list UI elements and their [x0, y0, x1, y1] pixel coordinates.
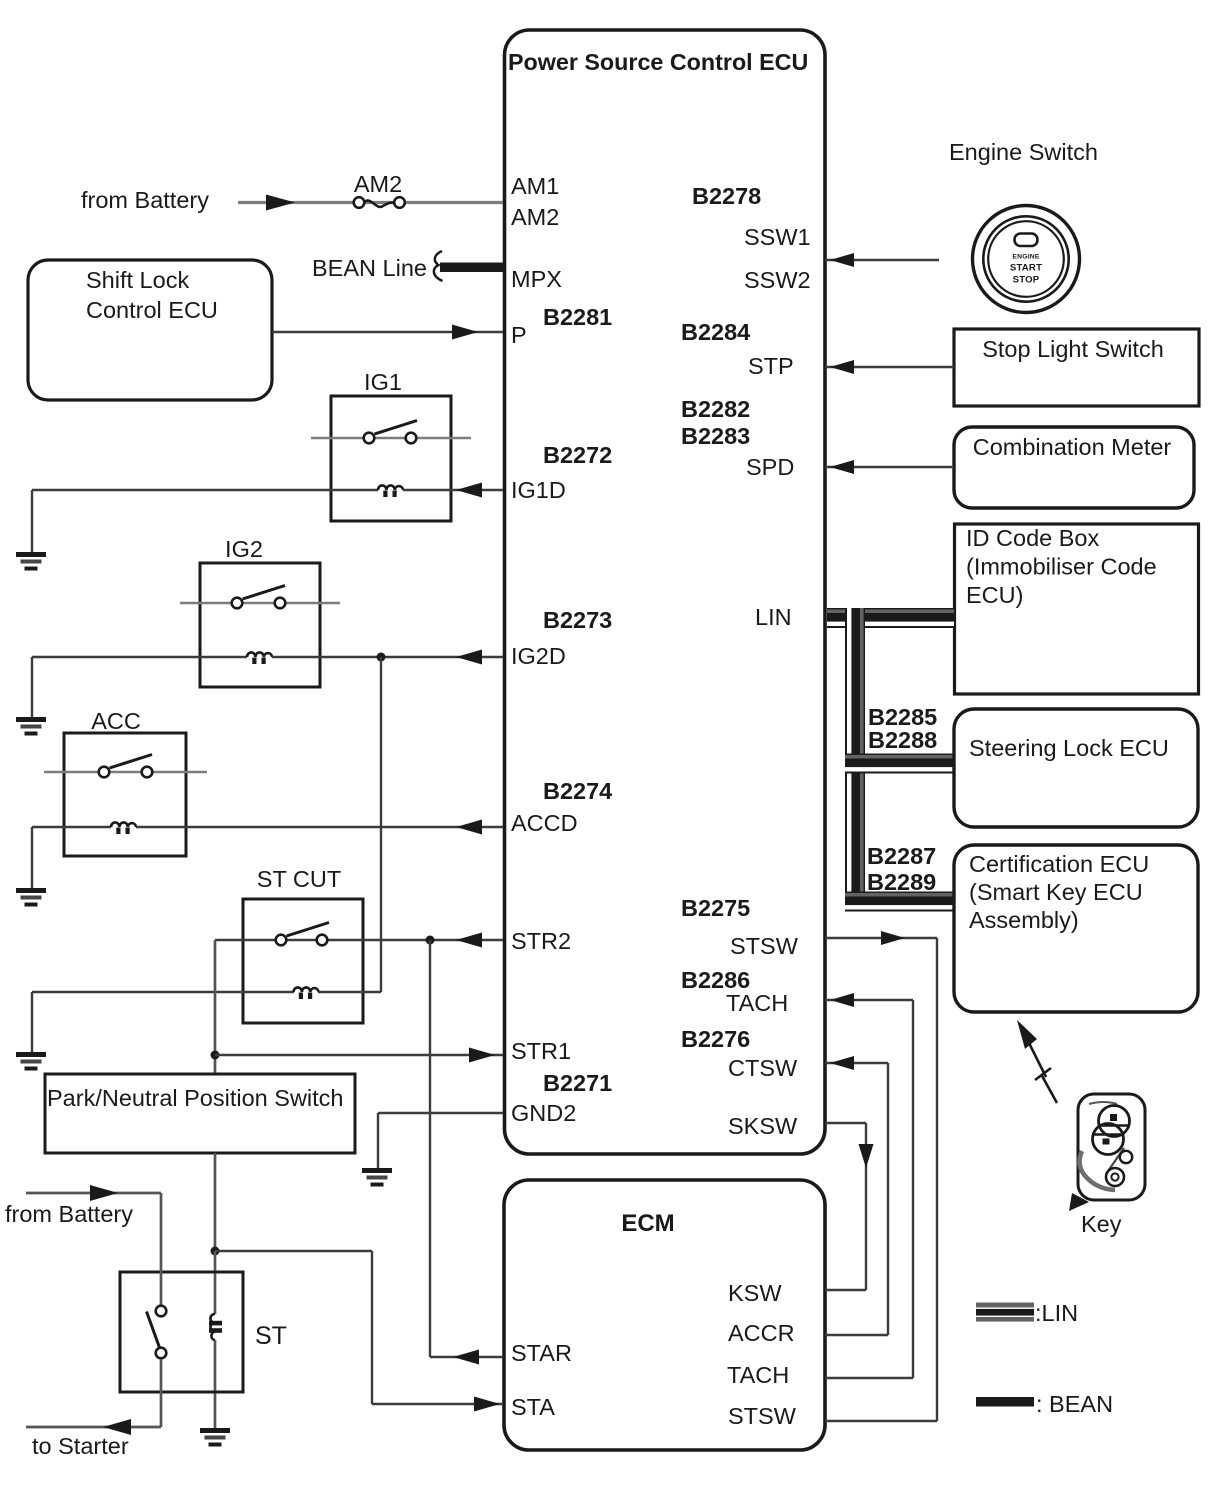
arrow into TACH: [830, 993, 854, 1007]
ST CUT relay coil: [294, 987, 319, 992]
IG2 switch contacts: [232, 598, 243, 609]
svg-text:IG2: IG2: [225, 536, 263, 562]
wire IG1D from ECU to coil: [403, 489, 503, 491]
wire STR2 junction down to STAR: [429, 940, 431, 1357]
svg-text:ECM: ECM: [621, 1210, 674, 1237]
wire TACH (ECM) to TACH (ECU): [825, 999, 913, 1001]
IG2 relay box: [200, 563, 320, 687]
ECM box: [504, 1180, 825, 1450]
LIN bus branch to Steering Lock ECU: [845, 754, 954, 774]
ground for IG1 coil: [16, 552, 46, 571]
ground below ST relay: [200, 1428, 230, 1447]
svg-text:: BEAN: : BEAN: [1036, 1391, 1113, 1417]
wire junction to ECM STAR: [430, 1356, 503, 1358]
wire GND2 to ground: [378, 1112, 503, 1114]
key fob lower button circle: [1093, 1124, 1124, 1155]
wire ST CUT coil to ground: [32, 991, 294, 993]
wire node down to ST coil: [214, 1251, 217, 1314]
svg-text:STR1: STR1: [511, 1038, 571, 1064]
wire corner down: [371, 1251, 373, 1404]
svg-text:Key: Key: [1081, 1211, 1122, 1237]
arrow SKSW down: [859, 1144, 874, 1168]
svg-text:B2278: B2278: [692, 183, 761, 209]
svg-text:TACH: TACH: [727, 1362, 789, 1388]
svg-text:(Immobiliser Code: (Immobiliser Code: [966, 554, 1157, 580]
Park/Neutral Position Switch box: [45, 1074, 355, 1153]
svg-text:B2275: B2275: [681, 895, 750, 921]
junction dot ST relay feed: [211, 1247, 220, 1256]
ST relay box: [120, 1272, 243, 1392]
svg-text::LIN: :LIN: [1035, 1300, 1078, 1326]
svg-text:B2282: B2282: [681, 396, 750, 422]
key ring arrow: [1069, 1193, 1089, 1211]
wire node to STA corner: [215, 1250, 372, 1252]
svg-text:Park/Neutral Position Switch: Park/Neutral Position Switch: [47, 1085, 343, 1111]
wire IG2D from ECU to coil: [272, 656, 503, 658]
svg-text:IG1D: IG1D: [511, 477, 566, 503]
svg-text:CTSW: CTSW: [728, 1055, 798, 1081]
BEAN thick wire into MPX: [440, 263, 504, 273]
svg-text:IG1: IG1: [364, 369, 402, 395]
svg-text:B2274: B2274: [543, 778, 612, 804]
svg-text:B2271: B2271: [543, 1070, 612, 1096]
svg-text:STAR: STAR: [511, 1340, 572, 1366]
engine start/stop button outer ring: [973, 206, 1080, 313]
svg-text:AM1: AM1: [511, 173, 559, 199]
arrow IG1D: [456, 483, 482, 498]
engine button middle ring: [983, 216, 1068, 301]
Stop Light Switch box: [954, 329, 1199, 406]
svg-text:Combination Meter: Combination Meter: [973, 434, 1172, 460]
key fob double circle: [1106, 1168, 1124, 1186]
svg-text:STSW: STSW: [728, 1403, 797, 1429]
key fob body: [1078, 1094, 1145, 1200]
svg-text:Shift Lock: Shift Lock: [86, 267, 189, 293]
ACC switch wire: [44, 771, 207, 774]
ID Code Box (Immobiliser Code ECU) box: [955, 524, 1199, 694]
wire to ECM STA: [372, 1403, 503, 1405]
IG2 switch blade: [243, 586, 286, 600]
wire SKSW (ECU) to KSW (ECM): [825, 1122, 866, 1124]
ground for IG2 coil: [16, 717, 46, 736]
LIN bus wire ECU to ID Code Box: [827, 608, 954, 628]
engine button inner ring: [988, 221, 1064, 297]
svg-text:B2283: B2283: [681, 423, 750, 449]
svg-text:SSW1: SSW1: [744, 224, 811, 250]
ground for ST CUT coil: [16, 1052, 46, 1071]
svg-text:to Starter: to Starter: [32, 1433, 129, 1459]
wire from battery (bottom): [26, 1192, 161, 1195]
svg-text:STOP: STOP: [1013, 275, 1040, 286]
ACC switch blade: [110, 755, 153, 769]
svg-text:SKSW: SKSW: [728, 1113, 798, 1139]
svg-text:B2276: B2276: [681, 1026, 750, 1052]
wire ACCR (ECM) to CTSW (ECU): [825, 1062, 888, 1064]
arrow on battery wire: [266, 195, 295, 211]
wire junction down to ST CUT coil: [380, 657, 382, 992]
ACC relay coil: [111, 822, 136, 827]
arrow STR2: [456, 933, 482, 948]
svg-text:IG2D: IG2D: [511, 643, 566, 669]
svg-text:ACCD: ACCD: [511, 810, 578, 836]
arrow into P: [452, 325, 478, 340]
Steering Lock ECU box: [954, 709, 1198, 827]
svg-text:B2287: B2287: [867, 843, 936, 869]
key ring strap: [1080, 1151, 1115, 1190]
arrow on bottom battery wire: [90, 1185, 118, 1201]
wire ACCD from ECU to coil: [136, 826, 503, 828]
wire from battery to AM1/AM2: [238, 201, 503, 204]
arrow STAR: [453, 1350, 479, 1365]
ST switch blade: [147, 1312, 161, 1350]
wire engine switch to SSW2: [825, 259, 939, 261]
IG1 relay coil: [378, 485, 403, 490]
wire ST switch to starter: [160, 1359, 163, 1427]
arrow into STA: [474, 1397, 500, 1412]
svg-text:P: P: [511, 322, 527, 348]
ST CUT switch wire: [215, 939, 503, 941]
svg-text:B2273: B2273: [543, 607, 612, 633]
svg-text:START: START: [1010, 263, 1042, 274]
svg-text:Control ECU: Control ECU: [86, 297, 218, 323]
ground GND2: [362, 1168, 392, 1187]
arrow into STP: [830, 360, 854, 374]
svg-text:AM2: AM2: [354, 171, 402, 197]
svg-text:KSW: KSW: [728, 1280, 782, 1306]
arrow into CTSW: [830, 1056, 854, 1070]
wireless signal arrow (key to certification ECU): [1017, 1020, 1037, 1049]
arrow into SPD: [830, 460, 854, 474]
ST CUT switch blade: [287, 923, 330, 937]
Certification ECU box: [954, 845, 1198, 1012]
svg-text:STA: STA: [511, 1394, 555, 1420]
svg-text:ST CUT: ST CUT: [257, 866, 341, 892]
wire ST CUT switch down to STR1 node: [214, 940, 217, 1074]
wire IG2 coil to ground: [32, 656, 247, 658]
ST CUT relay box: [243, 899, 363, 1023]
arrow into STR1: [469, 1048, 495, 1063]
LIN bus vertical drop: [845, 608, 865, 911]
arrow ACCD: [456, 820, 482, 835]
svg-text:Steering Lock ECU: Steering Lock ECU: [969, 735, 1169, 761]
wire ST coil to ground: [214, 1340, 217, 1429]
svg-text:ACC: ACC: [91, 708, 141, 734]
IG1 switch blade: [375, 421, 418, 435]
arrow STSW out: [881, 931, 905, 945]
svg-text:ST: ST: [255, 1322, 287, 1350]
ST switch contacts: [156, 1306, 167, 1317]
svg-text:SSW2: SSW2: [744, 267, 811, 293]
svg-text:ACCR: ACCR: [728, 1320, 795, 1346]
ECU box: Power Source Control ECU: [505, 30, 826, 1154]
wire Shift Lock ECU to P pin: [272, 331, 503, 333]
svg-text:ID Code Box: ID Code Box: [966, 525, 1099, 551]
svg-text:SPD: SPD: [746, 454, 794, 480]
legend BEAN bar: [976, 1397, 1034, 1407]
Shift Lock Control ECU box: [28, 260, 272, 400]
key fob small circle: [1120, 1151, 1132, 1163]
IG1 relay box: [331, 396, 451, 521]
key fob upper button circle: [1099, 1106, 1130, 1137]
ground for ACC coil: [16, 888, 46, 907]
svg-text:Power Source Control ECU: Power Source Control ECU: [508, 49, 808, 75]
Combination Meter box: [954, 427, 1194, 508]
ST CUT switch contacts: [276, 935, 287, 946]
svg-text:Engine Switch: Engine Switch: [949, 139, 1098, 165]
wire node to ECU STR1: [215, 1054, 503, 1056]
key fob button slots: [1094, 1126, 1129, 1135]
BEAN squiggle bracket: [434, 251, 443, 281]
svg-text:MPX: MPX: [511, 266, 562, 292]
wire combination meter to SPD: [825, 466, 954, 468]
ACC switch contacts: [99, 767, 110, 778]
svg-text:ECU): ECU): [966, 582, 1023, 608]
wire stop light switch to STP: [825, 366, 954, 368]
svg-text:AM2: AM2: [511, 204, 559, 230]
svg-text:from Battery: from Battery: [81, 187, 209, 213]
wire IG1 coil to ground: [32, 489, 378, 491]
svg-text:B2284: B2284: [681, 319, 750, 345]
svg-text:(Smart Key ECU: (Smart Key ECU: [969, 879, 1143, 905]
key fob diagonal stroke: [1106, 1148, 1124, 1174]
IG1 switch contacts: [364, 433, 375, 444]
svg-text:STSW: STSW: [730, 933, 799, 959]
svg-text:Stop Light Switch: Stop Light Switch: [982, 336, 1164, 362]
svg-text:from Battery: from Battery: [5, 1201, 133, 1227]
svg-text:B2272: B2272: [543, 442, 612, 468]
svg-text:B2281: B2281: [543, 304, 612, 330]
wire ST CUT coil to IG2D junction line: [318, 991, 381, 993]
wire ACC coil to ground: [32, 826, 111, 828]
arrow to starter: [103, 1419, 131, 1435]
fuse AM2: [364, 201, 394, 207]
svg-text:Assembly): Assembly): [969, 907, 1079, 933]
engine button slot: [1015, 234, 1038, 247]
IG1 switch wire: [311, 437, 471, 440]
junction dot IG2D / ST CUT coil feed: [377, 653, 386, 662]
svg-text:TACH: TACH: [726, 990, 788, 1016]
junction dot STR2 / starter line: [426, 936, 435, 945]
key fob top detail line: [1089, 1102, 1117, 1104]
arrow IG2D: [456, 650, 482, 665]
wire STSW (ECU) to STSW (ECM): [825, 937, 937, 939]
svg-text:ENGINE: ENGINE: [1012, 254, 1040, 261]
legend LIN bar: [976, 1303, 1034, 1322]
LIN bus branch to Certification ECU: [845, 892, 954, 912]
svg-text:STP: STP: [748, 353, 794, 379]
ST relay coil (vertical): [210, 1314, 215, 1340]
svg-text:LIN: LIN: [755, 604, 792, 630]
svg-text:STR2: STR2: [511, 928, 571, 954]
arrow into SSW2: [830, 253, 854, 267]
IG2 switch wire: [180, 602, 340, 605]
svg-text:BEAN Line: BEAN Line: [312, 255, 427, 281]
wire down to ST switch: [160, 1193, 163, 1305]
svg-text:GND2: GND2: [511, 1100, 576, 1126]
ACC relay box: [64, 733, 186, 856]
svg-text:B2289: B2289: [867, 869, 936, 895]
junction dot STR1 / Park-Neutral switch: [211, 1051, 220, 1060]
svg-text:B2288: B2288: [868, 727, 937, 753]
svg-text:Certification ECU: Certification ECU: [969, 851, 1149, 877]
IG2 relay coil: [247, 652, 272, 657]
wire P/N switch down to ST relay node: [214, 1153, 217, 1251]
